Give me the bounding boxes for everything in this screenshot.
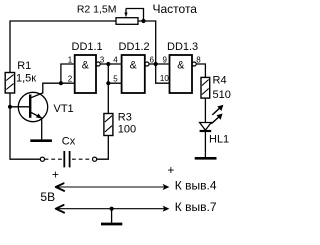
wire base of VT1 (10, 106, 30, 108)
svg-text:1: 1 (68, 56, 73, 65)
svg-text:5: 5 (113, 75, 118, 84)
junction dot pin3 node (106, 62, 110, 66)
svg-text:VT1: VT1 (54, 103, 74, 115)
resistor R1 (5, 73, 14, 94)
junction dot pin5 node (106, 81, 110, 85)
svg-text:+: + (52, 167, 59, 181)
ground bottom (101, 209, 122, 224)
junction dot R2 wiper (141, 19, 145, 23)
resistor R4 (201, 77, 210, 98)
svg-text:HL1: HL1 (209, 134, 229, 146)
svg-text:DD1.1: DD1.1 (72, 41, 103, 53)
bubble DD1.3 output (192, 62, 196, 66)
svg-text:2: 2 (68, 75, 73, 84)
svg-text:510: 510 (213, 89, 231, 101)
wire node to DD1.2 pin5 and down to R3 (108, 64, 121, 114)
bubble DD1.2 output (145, 62, 149, 66)
svg-text:6: 6 (150, 56, 155, 65)
svg-text:3: 3 (100, 56, 105, 65)
bubble DD1.1 output (96, 62, 100, 66)
svg-text:10: 10 (160, 74, 169, 83)
wire R2 right terminal to node at pin6/9 (138, 21, 156, 64)
wire DD1.2 pin6 to DD1.3 pin9 (149, 63, 169, 65)
wire VT1 emitter down to ground (41, 118, 43, 139)
svg-text:+: + (167, 163, 174, 177)
svg-text:R3: R3 (118, 112, 132, 124)
wire DD1.3 pin8 to R4 (196, 64, 205, 77)
junction dot R2 branch (154, 62, 158, 66)
svg-text:&: & (177, 60, 184, 72)
terminal circle right (93, 157, 97, 161)
svg-text:4: 4 (113, 56, 118, 65)
ground HL1 cathode (195, 157, 217, 160)
svg-text:R2 1,5М: R2 1,5М (77, 3, 117, 15)
LED HL1 (200, 105, 224, 131)
wire top rail and left rail to Cx left terminal (10, 21, 116, 159)
svg-text:К выв.4: К выв.4 (175, 178, 217, 192)
terminal circle left (40, 157, 44, 161)
svg-text:9: 9 (163, 56, 168, 65)
junction dot ground tap (110, 207, 114, 211)
svg-text:5В: 5В (40, 190, 55, 204)
svg-text:R1: R1 (17, 60, 31, 72)
ground VT1 emitter (30, 139, 52, 142)
svg-text:8: 8 (196, 56, 201, 65)
gate DD1.1 (75, 55, 96, 93)
arrow line 5V to pin4 (56, 183, 170, 191)
svg-text:К выв.7: К выв.7 (175, 200, 217, 214)
arrow line common to pin7 (56, 205, 170, 213)
junction dot pins1-2 tie (59, 81, 63, 85)
svg-text:1,5к: 1,5к (16, 73, 36, 85)
wire DD1.1 pin3 to DD1.2 pin4 (100, 63, 121, 65)
wire node to DD1.3 pin10 (156, 64, 170, 83)
svg-text:R4: R4 (213, 75, 227, 87)
wire R4 to LED HL1 (204, 98, 206, 122)
junction dot base node (8, 105, 12, 109)
wire VT1 collector to DD1.1 pin 2 (31, 83, 75, 98)
wire tie pins 1-2 of DD1.1 (61, 64, 75, 83)
svg-text:100: 100 (118, 123, 136, 135)
gate DD1.3 (170, 55, 193, 93)
resistor R3 (104, 114, 113, 136)
wire R3 bottom to Cx right terminal (97, 136, 109, 160)
svg-text:DD1.3: DD1.3 (167, 41, 198, 53)
gate DD1.2 (122, 55, 145, 93)
resistor R2 (variable) (116, 9, 144, 25)
svg-text:&: & (130, 60, 137, 72)
svg-text:DD1.2: DD1.2 (119, 41, 150, 53)
svg-text:Частота: Частота (153, 2, 198, 16)
transistor VT1 (18, 92, 47, 121)
svg-text:&: & (82, 60, 89, 72)
svg-text:Cx: Cx (62, 135, 76, 147)
capacitor Cx (45, 151, 93, 167)
wire HL1 cathode to ground (204, 131, 206, 157)
